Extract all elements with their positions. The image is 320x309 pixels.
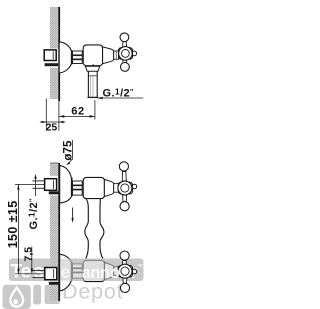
handle bottom knob neck: [123, 59, 127, 63]
lower valve body: [83, 260, 104, 281]
union rings: [73, 51, 83, 64]
lower handle bottom knob: [120, 283, 129, 292]
dimension 25 extension lines: [45, 99, 47, 131]
rosette inner circle: [122, 50, 130, 58]
lower handle bottom knob neck: [123, 277, 127, 284]
escutcheon bell (plan): [60, 42, 72, 73]
dia 75 leader: [68, 140, 73, 164]
upper bonnet cone: [104, 179, 113, 196]
upper handle stem: [114, 184, 119, 193]
upper handle hub: [118, 182, 132, 194]
svg-text:anno: anno: [82, 264, 120, 282]
watermark overlay wash on lower body: [60, 259, 104, 281]
handle rosette: [119, 47, 133, 61]
svg-text:Te: Te: [11, 262, 32, 283]
handle top knob: [120, 33, 129, 42]
upper handle rosette: [118, 181, 132, 195]
dimension 150 +-15 line: [17, 184, 19, 273]
valve body (plan): [83, 45, 102, 66]
connecting pipe right edge: [100, 199, 104, 259]
wall face line: [58, 7, 60, 101]
handle stem: [114, 51, 119, 59]
wall hatch segment 3: [50, 286, 58, 302]
lower supply union square: [45, 268, 57, 280]
lower handle right bump: [132, 269, 137, 274]
outlet pipe: [88, 71, 97, 97]
watermark band row1: [9, 259, 144, 283]
lower handle stem: [114, 267, 119, 276]
svg-text:62: 62: [71, 106, 84, 118]
lower handle top knob neck: [122, 261, 126, 266]
upper handle top knob: [119, 162, 128, 171]
wall hatch lower part: [50, 68, 58, 99]
svg-text:Depot: Depot: [62, 280, 123, 304]
wall hatch segment 2: [50, 196, 58, 266]
upper escutcheon bell: [60, 166, 72, 203]
upper handle right bump: [132, 184, 137, 189]
lower escutcheon face: [71, 262, 73, 280]
upper escutcheon face: [71, 178, 73, 197]
dimension 150 +-15 extension lines: [15, 183, 45, 185]
dimension 62 line with arrows: [59, 115, 95, 117]
svg-text:150 ±15: 150 ±15: [6, 200, 20, 248]
union bar below square: [45, 63, 59, 66]
svg-text:s: s: [34, 262, 45, 283]
supply union square behind wall: [44, 50, 56, 61]
lower union rings: [73, 264, 83, 278]
wall face line: [58, 163, 60, 301]
G 1/2 leader line: [98, 97, 144, 99]
dimension 62 extension line: [94, 100, 96, 119]
handle right bump: [132, 51, 137, 56]
lower escutcheon bell: [60, 254, 72, 291]
lower rosette inner: [121, 267, 129, 275]
upper rosette inner: [121, 184, 129, 192]
dimension 7,5: [31, 247, 33, 273]
handle top knob neck: [123, 42, 127, 48]
outlet collar nut: [85, 66, 100, 71]
upper handle top knob neck: [122, 172, 126, 183]
upper supply union square: [45, 179, 57, 191]
upper union rings: [73, 181, 83, 195]
svg-text:e: e: [61, 262, 71, 282]
escutcheon face line: [71, 50, 73, 64]
lower handle top knob: [120, 251, 129, 260]
lower union bar: [49, 282, 60, 285]
upper handle bottom knob neck: [123, 194, 127, 202]
upper union bar: [49, 191, 60, 194]
connecting pipe left edge: [85, 199, 89, 259]
watermark gray patch: [45, 285, 61, 304]
outlet direction arrow: [72, 208, 74, 220]
upper supply stub pipe: [33, 181, 45, 188]
svg-text:25: 25: [46, 122, 58, 134]
handle bottom knob: [121, 63, 130, 72]
lower handle rosette: [118, 264, 132, 278]
upper handle bottom knob: [120, 202, 129, 211]
wall hatch segment 1: [50, 163, 58, 176]
dimension 25 line with outside arrows: [40, 121, 66, 123]
wall hatch upper part: [50, 7, 58, 49]
body centre tick: [92, 64, 94, 67]
lower handle hub: [118, 266, 132, 278]
svg-text:G.1/2″: G.1/2″: [27, 198, 40, 230]
bonnet cone (plan): [103, 47, 114, 64]
svg-text:7,5: 7,5: [23, 247, 35, 262]
lower bonnet cone: [104, 263, 113, 280]
handle hub square: [119, 48, 133, 59]
watermark small tile: [33, 285, 41, 305]
watermark icon tile with water drop: [3, 285, 31, 309]
lower supply stub pipe: [33, 271, 45, 278]
wall top edge: [50, 162, 58, 164]
svg-text:™: ™: [137, 263, 143, 270]
upper valve body: [83, 177, 104, 198]
G 1/2 leader: [35, 179, 37, 197]
outlet pipe end cap: [88, 96, 99, 98]
